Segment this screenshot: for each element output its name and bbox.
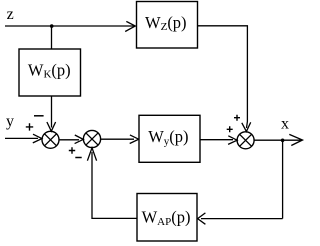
wire W_y to S3 <box>200 139 233 141</box>
wire S3 output <box>254 139 301 141</box>
node z <box>7 6 14 23</box>
summer S3 cross <box>240 134 252 146</box>
sign plus at S3 top input <box>234 115 240 121</box>
block W_y <box>139 115 200 162</box>
svg-text:x: x <box>281 115 289 132</box>
block W_K <box>19 49 81 96</box>
arrowhead down into S1 <box>47 122 56 131</box>
sign plus at S1 left input <box>26 123 33 130</box>
arrowhead into W_AP <box>198 213 206 224</box>
svg-text:z: z <box>7 6 14 23</box>
sign plus at S2 left input <box>69 147 75 153</box>
arrowhead into S2 <box>75 135 84 144</box>
wire S1 to S2 <box>59 139 79 141</box>
arrowhead into S3 <box>228 136 237 145</box>
arrowhead down into S3 <box>242 122 251 131</box>
wire feedback bottom horizontal <box>201 218 283 220</box>
node junction z branch <box>50 24 54 28</box>
wire W_Z output to S3 top <box>198 26 248 128</box>
summer S1 <box>42 131 59 148</box>
sign plus at S3 left input <box>227 126 233 132</box>
wire feedback right vertical <box>282 140 284 218</box>
arrowhead output x <box>289 134 302 145</box>
wire W_K to summer S1 <box>51 96 53 128</box>
summer S2 cross <box>86 133 98 145</box>
wire z input <box>5 25 135 27</box>
block W_Z <box>137 2 198 49</box>
wire y input <box>5 137 38 139</box>
block W_AP <box>137 194 197 242</box>
summer S2 <box>83 130 100 147</box>
node y <box>6 113 14 130</box>
sign minus at S1 top input <box>34 115 44 117</box>
node junction x branch <box>281 139 285 143</box>
wire S2 to W_y <box>101 138 134 140</box>
wire W_AP output left <box>92 152 137 218</box>
arrowhead up into S2 bottom <box>87 148 96 161</box>
summer S1 cross <box>45 134 57 146</box>
sign minus at S2 bottom input <box>75 157 81 159</box>
arrowhead into W_y <box>130 135 139 144</box>
svg-text:Wy(p): Wy(p) <box>148 127 188 147</box>
node x <box>281 115 289 132</box>
summer S3 <box>237 132 254 149</box>
arrowhead into W_Z <box>125 21 135 31</box>
arrowhead into S1 <box>33 134 42 143</box>
wire junction to W_K <box>51 26 53 49</box>
svg-text:y: y <box>6 113 14 130</box>
